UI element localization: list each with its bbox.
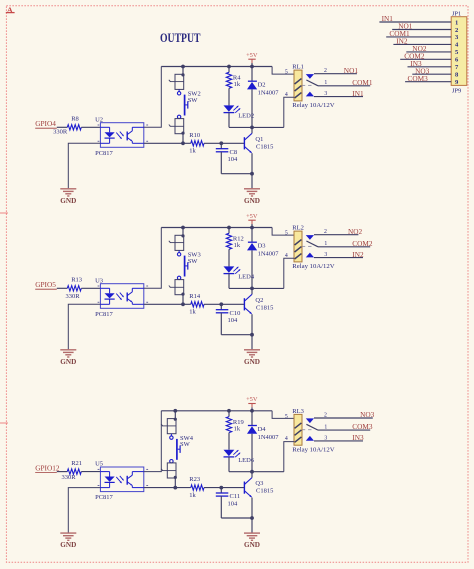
relay contact NO pin 2 node NO3: [306, 410, 375, 423]
pin 6 wire node COM2: [400, 51, 459, 63]
junction: [173, 409, 177, 413]
node GPIO12: [35, 463, 67, 472]
relay RL3: [272, 408, 335, 472]
svg-text:5: 5: [285, 70, 288, 76]
power +5V: [246, 396, 258, 411]
junction: [181, 302, 185, 306]
svg-text:3: 3: [324, 91, 327, 97]
svg-text:COM3: COM3: [408, 74, 429, 83]
svg-text:RL3: RL3: [292, 408, 304, 415]
pin 2 wire node NO1: [392, 22, 459, 34]
connector JP1: [379, 10, 466, 94]
svg-text:D2: D2: [258, 82, 266, 89]
svg-text:Q3: Q3: [255, 480, 263, 487]
junction: [227, 65, 231, 69]
LED LED4: [224, 266, 255, 288]
relay RL2: [272, 225, 335, 289]
wire: [144, 228, 162, 289]
junction: [250, 65, 254, 69]
svg-text:1k: 1k: [189, 492, 196, 499]
wire: [68, 304, 100, 349]
svg-text:GND: GND: [60, 541, 76, 549]
svg-text:C1815: C1815: [256, 143, 273, 150]
relay contact NO pin 2 node NO2: [306, 227, 363, 240]
svg-text:NO1: NO1: [344, 66, 359, 75]
junction: [250, 126, 254, 130]
svg-text:GND: GND: [244, 358, 260, 366]
svg-text:SW: SW: [188, 258, 199, 265]
resistor R19: [226, 411, 243, 450]
svg-text:104: 104: [228, 317, 239, 324]
wire: [204, 142, 244, 144]
resistor R4: [226, 67, 241, 106]
svg-text:+5V: +5V: [246, 213, 258, 220]
pin 3 wire node COM1: [386, 29, 459, 41]
svg-text:GND: GND: [60, 197, 76, 205]
svg-text:R14: R14: [189, 293, 201, 300]
svg-text:C10: C10: [230, 310, 241, 317]
junction: [227, 409, 231, 413]
wire: [174, 411, 176, 419]
svg-text:PC817: PC817: [95, 494, 113, 501]
junction: [250, 333, 254, 337]
wire: [81, 471, 100, 473]
svg-text:1k: 1k: [234, 242, 241, 249]
wire +5V rail: [161, 66, 272, 68]
wire: [182, 67, 184, 75]
svg-text:5: 5: [285, 231, 288, 237]
sheet zone tick: [0, 212, 8, 214]
svg-text:1: 1: [324, 80, 327, 86]
switch SW2: [177, 89, 200, 118]
switch SW3: [177, 250, 200, 279]
relay contact NC pin 3 node IN3: [306, 433, 364, 442]
op-amp U2 optocoupler PC817: [95, 116, 148, 157]
wire: [68, 143, 100, 188]
sheet zone tick: [0, 422, 8, 424]
pin 9 wire node COM3: [405, 74, 459, 86]
svg-text:IN1: IN1: [382, 14, 394, 23]
resistor R10: [189, 132, 204, 155]
svg-text:1: 1: [324, 241, 327, 247]
svg-text:U2: U2: [95, 116, 103, 123]
relay contact NC pin 3 node IN2: [306, 250, 364, 259]
op-amp U5 optocoupler PC817: [95, 461, 148, 502]
pin 1 wire node IN1: [379, 14, 458, 26]
ground GND2a: [60, 350, 76, 366]
junction: [250, 409, 254, 413]
svg-text:+5V: +5V: [246, 52, 258, 59]
svg-text:5: 5: [285, 414, 288, 420]
wire: [144, 487, 191, 489]
svg-text:GPIO4: GPIO4: [35, 119, 56, 128]
svg-text:NO2: NO2: [348, 227, 363, 236]
transistor Q3: [244, 472, 274, 533]
junction: [219, 302, 223, 306]
svg-text:C1815: C1815: [256, 304, 273, 311]
resistor R8: [53, 116, 81, 136]
wire: [81, 287, 100, 289]
node GPIO5: [35, 280, 67, 289]
connector pin (lower) of SW4: [161, 463, 177, 479]
switch SW4: [170, 434, 194, 463]
svg-text:PC817: PC817: [95, 311, 113, 318]
svg-text:2: 2: [324, 412, 327, 418]
svg-text:R21: R21: [71, 460, 82, 467]
svg-text:COM2: COM2: [352, 239, 373, 248]
pin 7 wire node IN3: [408, 59, 459, 71]
resistor R13: [65, 277, 82, 300]
svg-text:Relay 10A/12V: Relay 10A/12V: [292, 102, 335, 109]
svg-text:1N4007: 1N4007: [258, 434, 280, 441]
svg-text:2: 2: [324, 68, 327, 74]
wire: [174, 478, 176, 488]
svg-text:IN3: IN3: [352, 433, 364, 442]
svg-text:GPIO12: GPIO12: [35, 463, 60, 472]
diode D2: [247, 67, 279, 128]
svg-text:1N4007: 1N4007: [258, 90, 280, 97]
svg-text:JP9: JP9: [452, 88, 461, 95]
junction: [219, 486, 223, 490]
relay contact COM pin 1 node COM2: [302, 239, 373, 248]
op-amp U3 optocoupler PC817: [95, 277, 148, 318]
junction: [173, 486, 177, 490]
wire: [144, 303, 191, 305]
connector pin (lower) of SW2: [169, 119, 185, 135]
relay contact COM pin 1 node COM3: [302, 422, 373, 431]
LED LED6: [224, 450, 255, 472]
junction: [250, 172, 254, 176]
junction: [250, 470, 254, 474]
ground GND3a: [60, 533, 76, 549]
junction: [227, 226, 231, 230]
wire: [182, 134, 184, 144]
svg-text:RL2: RL2: [292, 225, 304, 232]
wire: [229, 471, 284, 473]
resistor R12: [226, 228, 243, 267]
svg-text:C8: C8: [230, 149, 238, 156]
capacitor C10: [216, 304, 252, 334]
junction: [250, 516, 254, 520]
svg-text:Relay 10A/12V: Relay 10A/12V: [292, 263, 335, 270]
svg-text:1N4007: 1N4007: [258, 251, 280, 258]
svg-text:1k: 1k: [234, 425, 241, 432]
svg-text:R13: R13: [71, 277, 82, 284]
wire: [229, 126, 284, 128]
svg-text:330R: 330R: [61, 474, 76, 481]
svg-text:1k: 1k: [189, 309, 196, 316]
svg-text:C11: C11: [230, 493, 241, 500]
node GPIO4: [35, 119, 67, 128]
resistor R23: [189, 476, 204, 499]
resistor R21: [61, 460, 82, 481]
svg-text:GPIO5: GPIO5: [35, 280, 56, 289]
ground GND2b: [244, 350, 260, 366]
wire: [144, 67, 162, 128]
relay RL1: [272, 64, 335, 128]
svg-text:U5: U5: [95, 461, 103, 468]
svg-text:104: 104: [228, 500, 239, 507]
wire: [204, 487, 244, 489]
wire: [144, 411, 162, 472]
relay contact NC pin 3 node IN1: [306, 89, 364, 98]
power +5V: [246, 213, 258, 228]
wire +5V rail: [161, 410, 272, 412]
svg-text:GND: GND: [244, 541, 260, 549]
ground GND3b: [244, 533, 260, 549]
junction: [181, 65, 185, 69]
svg-text:330R: 330R: [53, 129, 68, 136]
junction: [250, 287, 254, 291]
junction: [250, 226, 254, 230]
svg-text:330R: 330R: [65, 293, 80, 300]
svg-text:SW: SW: [188, 97, 199, 104]
wire +5V rail: [161, 227, 272, 229]
svg-text:NO3: NO3: [360, 410, 375, 419]
wire: [68, 488, 100, 533]
svg-text:GND: GND: [60, 358, 76, 366]
connector pin (upper) of SW2: [169, 73, 185, 89]
svg-text:3: 3: [324, 252, 327, 258]
relay contact NO pin 2 node NO1: [306, 66, 359, 79]
transistor Q2: [244, 288, 274, 349]
svg-text:Q1: Q1: [255, 136, 263, 143]
svg-text:SW: SW: [180, 441, 191, 448]
pin 8 wire node NO3: [412, 66, 459, 78]
wire: [229, 287, 284, 289]
sheet corner marker: [6, 5, 15, 15]
svg-text:COM1: COM1: [352, 78, 373, 87]
capacitor C8: [216, 143, 252, 173]
wire: [81, 126, 100, 128]
svg-text:R8: R8: [71, 116, 79, 123]
svg-text:1k: 1k: [234, 81, 241, 88]
svg-text:IN1: IN1: [352, 89, 364, 98]
junction: [181, 226, 185, 230]
svg-text:U3: U3: [95, 277, 103, 284]
junction: [219, 141, 223, 145]
ground GND1b: [244, 189, 260, 205]
svg-text:104: 104: [228, 156, 239, 163]
diode D4: [247, 411, 279, 472]
svg-text:COM3: COM3: [352, 422, 373, 431]
svg-text:R10: R10: [189, 132, 200, 139]
ground GND1a: [60, 189, 76, 205]
wire: [182, 295, 184, 305]
svg-text:JP1: JP1: [452, 10, 461, 17]
pin 5 wire node NO2: [406, 44, 459, 56]
svg-text:OUTPUT: OUTPUT: [160, 31, 201, 45]
diode D3: [247, 228, 279, 289]
svg-text:+5V: +5V: [246, 396, 258, 403]
capacitor C11: [216, 488, 252, 518]
svg-text:IN2: IN2: [396, 37, 408, 46]
svg-text:GND: GND: [244, 197, 260, 205]
connector pin (upper) of SW3: [169, 234, 185, 250]
svg-text:2: 2: [324, 229, 327, 235]
connector pin (upper) of SW4: [161, 418, 177, 434]
svg-text:PC817: PC817: [95, 150, 113, 157]
power +5V: [246, 52, 258, 67]
connector pin (lower) of SW3: [169, 280, 185, 296]
transistor Q1: [244, 127, 274, 188]
svg-text:C1815: C1815: [256, 488, 273, 495]
svg-text:3: 3: [324, 436, 327, 442]
svg-text:D3: D3: [258, 243, 266, 250]
svg-text:IN2: IN2: [352, 250, 364, 259]
svg-text:A: A: [7, 5, 14, 15]
junction: [181, 141, 185, 145]
svg-text:1: 1: [324, 425, 327, 431]
svg-text:Q2: Q2: [255, 297, 263, 304]
svg-text:D4: D4: [258, 426, 267, 433]
svg-text:1k: 1k: [189, 148, 196, 155]
wire: [182, 228, 184, 236]
svg-text:R23: R23: [189, 476, 200, 483]
pin 4 wire node IN2: [393, 37, 459, 49]
svg-text:RL1: RL1: [292, 64, 304, 71]
resistor R14: [189, 293, 204, 316]
wire: [204, 303, 244, 305]
relay contact COM pin 1 node COM1: [302, 78, 373, 87]
wire: [144, 142, 191, 144]
svg-text:1: 1: [455, 19, 458, 26]
svg-text:Relay 10A/12V: Relay 10A/12V: [292, 447, 335, 454]
LED LED2: [224, 105, 255, 127]
